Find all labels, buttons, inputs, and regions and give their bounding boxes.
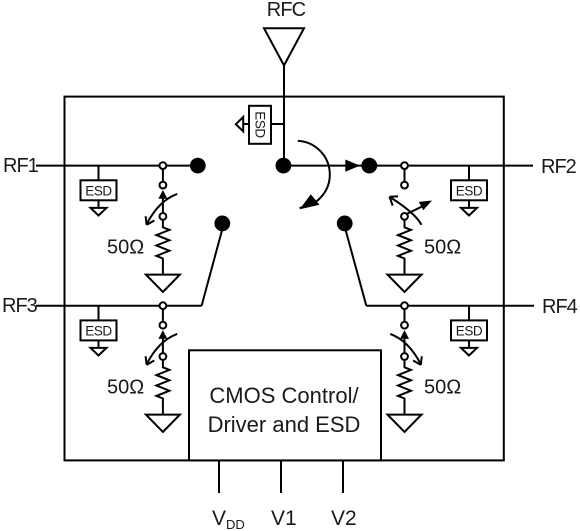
- wire RF2: [369, 165, 533, 167]
- ESD block U-ESD (RFC): [249, 106, 271, 144]
- pin V2 wire: [342, 460, 344, 493]
- shunt switch RF3 (closed, arrow up): [162, 336, 164, 353]
- wire RF3 arm riser (diagonal): [202, 229, 223, 306]
- svg-text:RF4: RF4: [542, 296, 578, 318]
- CMOS control block: [189, 350, 381, 460]
- switch arm RFC to RF2 (closed, arrow): [283, 165, 362, 167]
- resistor R1 50ohm: [156, 220, 169, 275]
- switch rotation arc (RFC arm motion): [298, 141, 330, 208]
- svg-text:RF2: RF2: [541, 156, 577, 178]
- shunt switch RF4 (closed, arrow up): [404, 336, 406, 353]
- svg-text:50Ω: 50Ω: [107, 237, 144, 259]
- node RF2 throw contact (dot): [362, 159, 376, 173]
- RFC antenna triangle: [264, 28, 304, 65]
- svg-text:ESD: ESD: [456, 323, 483, 338]
- node RFC common (dot): [277, 159, 291, 173]
- shunt branch RF1: contact circles: [160, 162, 167, 220]
- shunt switch RF1 motion arc: [147, 194, 177, 224]
- svg-text:Driver and ESD: Driver and ESD: [208, 412, 361, 437]
- resistor R4 50ohm: [398, 360, 411, 415]
- ESD block RF4: [451, 306, 487, 356]
- chip outline box: [65, 97, 504, 461]
- ESD block RF2: [451, 166, 487, 216]
- ground (RF4 shunt): [388, 415, 422, 432]
- ESD discharge arrow (points left): [243, 123, 249, 125]
- wire RF4: [366, 305, 534, 307]
- wire ESD stub to RFC line: [271, 123, 284, 125]
- ESD block RF1: [81, 166, 117, 216]
- ESD block RF3: [81, 306, 117, 356]
- node RF1 throw contact (dot): [191, 159, 205, 173]
- svg-text:ESD: ESD: [85, 323, 112, 338]
- svg-text:ESD: ESD: [253, 111, 268, 138]
- pin V1 wire: [280, 460, 282, 493]
- resistor R2 50ohm: [398, 220, 411, 275]
- svg-text:50Ω: 50Ω: [424, 237, 461, 259]
- shunt switch RF1 (closed, arrow up): [162, 196, 164, 213]
- svg-text:VDD: VDD: [212, 507, 245, 531]
- svg-text:RFC: RFC: [267, 0, 306, 21]
- ground (RF2 shunt): [388, 275, 422, 292]
- shunt switch RF2 motion arc: [391, 198, 422, 225]
- shunt switch RF3 motion arc: [147, 334, 177, 364]
- svg-text:V2: V2: [331, 507, 357, 530]
- wire RF3: [36, 305, 202, 307]
- svg-text:V1: V1: [271, 507, 297, 530]
- resistor R3 50ohm: [156, 360, 169, 415]
- wire RF4 arm riser (diagonal): [345, 229, 366, 306]
- wire RF1: [36, 165, 198, 167]
- svg-text:RF3: RF3: [2, 295, 38, 317]
- svg-text:ESD: ESD: [456, 183, 483, 198]
- shunt branch RF3: contact circles: [160, 302, 167, 360]
- wire RFC vertical: [283, 66, 285, 166]
- ground (RF3 shunt): [146, 415, 180, 432]
- node RF4 throw contact (dot): [338, 217, 352, 231]
- svg-text:50Ω: 50Ω: [424, 377, 461, 399]
- svg-text:50Ω: 50Ω: [107, 377, 144, 399]
- ground (RF1 shunt): [146, 275, 180, 292]
- node RF3 throw contact (dot): [215, 217, 229, 231]
- shunt branch RF4: contact circles: [401, 302, 408, 360]
- svg-text:RF1: RF1: [3, 155, 39, 177]
- shunt switch RF2 (open, arm tilted, arrow up-right): [406, 207, 422, 215]
- pin VDD wire: [218, 460, 220, 493]
- shunt switch RF4 motion arc: [390, 334, 420, 364]
- shunt branch RF2: contact circles: [401, 162, 408, 220]
- svg-text:ESD: ESD: [85, 183, 112, 198]
- svg-text:CMOS Control/: CMOS Control/: [209, 383, 359, 408]
